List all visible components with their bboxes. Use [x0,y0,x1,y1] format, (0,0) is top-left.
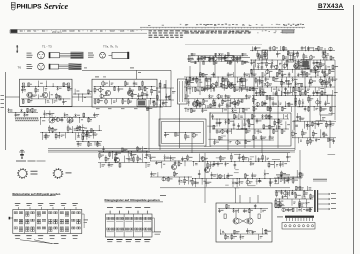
svg-text:Service: Service [44,2,68,11]
svg-text:T1 - T3: T1 - T3 [42,44,52,48]
svg-text:B7X43A: B7X43A [318,3,344,10]
svg-text:200 mm: 200 mm [52,30,61,34]
svg-text:Wellenschalter auf UKW-punkt g: Wellenschalter auf UKW-punkt gesehen [12,192,60,196]
svg-text:Klangregister auf Ultrapunkte: Klangregister auf Ultrapunkte gesehen [105,198,160,202]
svg-text:PHILIPS: PHILIPS [17,4,43,11]
svg-text:T6: T6 [18,65,22,69]
svg-text:T7a, 7b, 7c: T7a, 7b, 7c [103,44,119,48]
